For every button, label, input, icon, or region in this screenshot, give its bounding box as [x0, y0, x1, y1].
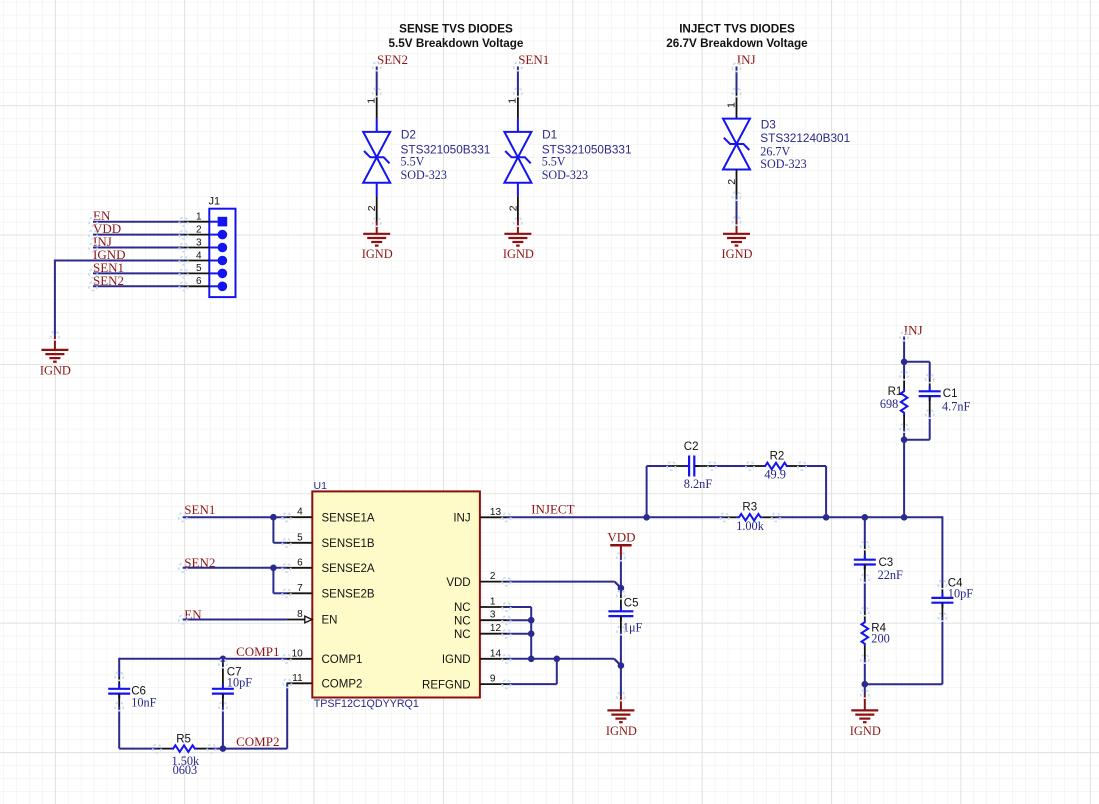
pin 1 of J1 (black pin line): [184, 221, 210, 223]
svg-text:U1: U1: [314, 480, 328, 492]
capacitor C5 symbol: [620, 607, 622, 612]
junction node NC pin 12: [528, 630, 535, 637]
svg-text:22nF: 22nF: [878, 568, 903, 582]
svg-text:IGND: IGND: [503, 247, 534, 261]
capacitor C3 symbol: [864, 555, 866, 560]
pin 2 of D2 (black pin line): [376, 196, 378, 222]
svg-text:4.7nF: 4.7nF: [942, 399, 971, 413]
svg-text:5.5V Breakdown Voltage: 5.5V Breakdown Voltage: [389, 37, 524, 50]
op-amp U1 body (IC TPSF12C1QDYYRQ1): [312, 491, 480, 697]
connector J1 pin 1 square pad: [209, 217, 227, 227]
pin 2 of R5 (black lead): [197, 748, 212, 750]
svg-text:IGND: IGND: [850, 724, 881, 738]
pin 3 of J1 (black pin line): [184, 247, 210, 249]
capacitor C2 symbol: [684, 465, 689, 467]
wire R1 bottom vertical: [903, 428, 905, 440]
pin 2 of C1 (black lead): [929, 396, 931, 414]
pin 1 of C2 (black lead): [671, 465, 688, 467]
wire NC pin 1 to bus: [507, 606, 532, 608]
pin 8 (EN) of U1 left side: [287, 619, 305, 621]
junction node R4 / C4 bottom: [862, 681, 869, 688]
pin 1 of R2 (black lead): [750, 465, 763, 467]
svg-text:SENSE1A: SENSE1A: [322, 512, 375, 524]
pin 2 of C5 (black lead): [620, 616, 622, 630]
wire red stem at D2 ground: [376, 221, 378, 234]
svg-text:COMP1: COMP1: [322, 654, 363, 666]
wire C6 top vertical: [118, 658, 120, 676]
wire red stem at R4/C4 ground: [864, 694, 866, 710]
pin 2 of C3 (black lead): [864, 565, 866, 579]
wire INJECT rail segment 2: [647, 516, 725, 518]
svg-text:5: 5: [297, 532, 303, 543]
svg-text:NC: NC: [454, 615, 471, 627]
svg-text:7: 7: [297, 583, 303, 594]
junction node loop bottom: [901, 436, 908, 443]
svg-text:SENSE1B: SENSE1B: [322, 538, 375, 550]
svg-text:2: 2: [726, 179, 738, 185]
pin 5 of J1 (black pin line): [184, 272, 210, 274]
svg-text:D2: D2: [401, 127, 416, 141]
pin 1 of C4 (black lead): [941, 585, 943, 598]
pin 1 of R4 (black lead): [864, 612, 866, 621]
wire IGND net from pin 14: [507, 658, 615, 660]
pin 9 (REFGND) of U1 right side: [480, 683, 507, 685]
wire SEN1 branch down to pin 5: [272, 517, 274, 543]
wire COMP1 from U1 pin 10: [119, 658, 286, 660]
junction node SEN1: [270, 514, 277, 521]
capacitor C7 symbol: [222, 684, 224, 689]
ground IGND symbol (below D2): [363, 233, 390, 235]
junction node NC bus to IGND wire: [528, 656, 535, 663]
pin 2 of R2 (black lead): [789, 465, 802, 467]
svg-text:9: 9: [490, 674, 496, 685]
wire C1 top vertical: [929, 362, 931, 379]
pin 2 of R4 (black lead): [864, 646, 866, 659]
pin 1 of D1 (black pin line): [517, 92, 519, 118]
wire C3 to R4 vertical: [864, 579, 866, 612]
svg-text:5.5V: 5.5V: [542, 154, 566, 168]
wire net VDD to J1 pin 2: [93, 234, 184, 236]
pin 10 (COMP1) of U1 left side: [287, 658, 313, 660]
pin 1 of D3 (black pin line): [736, 92, 738, 118]
pin 1 of C7 (black lead): [222, 664, 224, 689]
svg-text:SENSE TVS DIODES: SENSE TVS DIODES: [399, 23, 513, 36]
ground IGND symbol (below C5): [607, 709, 634, 711]
svg-text:10nF: 10nF: [131, 695, 156, 709]
pin 1 of D2 (black pin line): [376, 92, 378, 118]
wire loop bottom horizontal: [904, 439, 930, 441]
capacitor C4 symbol: [941, 593, 943, 598]
svg-text:INJ: INJ: [453, 513, 470, 525]
junction node INJECT / C2 branch left: [643, 514, 650, 521]
svg-text:D3: D3: [761, 117, 777, 131]
svg-text:13: 13: [490, 507, 502, 518]
wire bottom horizontal R4 to C4: [865, 683, 943, 685]
wire IGND red stem at J1 ground: [54, 336, 56, 350]
resistor R1 symbol: [901, 389, 908, 415]
svg-text:SOD-323: SOD-323: [401, 168, 447, 182]
svg-text:IGND: IGND: [362, 247, 393, 261]
svg-text:5.5V: 5.5V: [401, 154, 425, 168]
power port VDD stem: [620, 545, 622, 556]
svg-text:1: 1: [366, 98, 378, 104]
pin 1 (NC) of U1 right side: [480, 606, 507, 608]
EN input arrow on pin 8: [305, 616, 312, 623]
wire REFGND from pin 9: [507, 683, 557, 685]
ground IGND symbol (below D3): [723, 233, 750, 235]
wire net IGND from J1 pin 4 (horizontal): [55, 260, 184, 262]
wire into U1 pin 5: [273, 542, 286, 544]
wire R4 bottom vertical: [864, 659, 866, 684]
wire net INJ to J1 pin 3: [93, 247, 184, 249]
wire SEN1 to U1 pin 4: [183, 516, 287, 518]
wire upper branch right segment: [802, 465, 826, 467]
svg-text:R3: R3: [742, 502, 757, 514]
svg-text:14: 14: [490, 648, 502, 659]
pin 5 (SENSE1B) of U1 left side: [287, 542, 313, 544]
wire C6 bottom vertical: [118, 707, 120, 749]
pin 2 of D1 (black pin line): [517, 196, 519, 222]
svg-text:R2: R2: [770, 450, 785, 462]
svg-text:0603: 0603: [173, 763, 198, 777]
svg-text:SEN1: SEN1: [184, 502, 215, 517]
svg-text:REFGND: REFGND: [422, 679, 471, 691]
ground IGND symbol (below D1): [504, 233, 531, 235]
svg-text:1: 1: [725, 102, 737, 108]
svg-text:8.2nF: 8.2nF: [684, 477, 713, 491]
wire VDD vertical to junction: [620, 557, 622, 595]
svg-text:10: 10: [292, 648, 304, 659]
wire SEN2 to D2 pin 1: [376, 67, 378, 93]
wire red stem at C5 ground: [620, 696, 622, 710]
pin 2 of J1 (black pin line): [184, 234, 210, 236]
pin 2 of C7 (black lead): [222, 694, 224, 707]
wire C1 bottom vertical: [929, 414, 931, 440]
svg-text:49.9: 49.9: [764, 467, 786, 481]
wire R1 top vertical: [903, 362, 905, 376]
wire INJ to D3 pin 1: [736, 67, 738, 93]
svg-text:1.00k: 1.00k: [736, 519, 765, 533]
pin 2 (VDD) of U1 right side: [480, 581, 507, 583]
wire C7 bottom vertical: [222, 707, 224, 749]
wire net SEN2 to J1 pin 6: [93, 285, 184, 287]
pin 4 of J1 (black pin line): [184, 260, 210, 262]
pin 6 (SENSE2A) of U1 left side: [287, 567, 313, 569]
svg-text:8: 8: [297, 609, 303, 620]
wire loop top horizontal: [904, 361, 930, 363]
svg-text:2: 2: [490, 571, 496, 582]
pin 1 of C5 (black lead): [620, 595, 622, 612]
ground IGND symbol (below R4): [851, 709, 878, 711]
resistor R3 symbol: [737, 514, 763, 521]
wire INJECT rail segment 1: [507, 516, 647, 518]
wire R2 branch right riser: [825, 466, 827, 517]
junction node R1/C1 column: [901, 514, 908, 521]
pin 1 of R5 (black lead): [157, 748, 171, 750]
wire VDD diagonal jog: [615, 582, 621, 588]
wire SEN1 to D1 pin 1: [517, 67, 519, 93]
svg-text:SENSE2B: SENSE2B: [322, 589, 375, 601]
power port VDD bar: [610, 544, 631, 547]
svg-text:SENSE2A: SENSE2A: [322, 563, 375, 575]
resistor R5 symbol: [171, 745, 197, 752]
pin 2 of C2 (black lead): [695, 465, 712, 467]
svg-text:C5: C5: [624, 598, 639, 610]
wire EN to U1 pin 8: [183, 619, 287, 621]
svg-text:698: 698: [880, 397, 898, 411]
svg-text:COMP2: COMP2: [236, 734, 279, 749]
junction node NC pin 3: [528, 617, 535, 624]
svg-text:3: 3: [490, 610, 496, 621]
svg-text:NC: NC: [454, 602, 471, 614]
pin 1 of C3 (black lead): [864, 546, 866, 560]
svg-text:D1: D1: [542, 127, 557, 141]
svg-text:10pF: 10pF: [948, 586, 973, 600]
resistor R4 symbol: [862, 620, 869, 646]
wire IGND diagonal jog to C5 column: [614, 659, 621, 666]
capacitor C1 symbol: [929, 387, 931, 392]
svg-text:R5: R5: [176, 734, 191, 746]
pin 6 of J1 (black pin line): [184, 285, 210, 287]
pin 2 of R1 (black lead): [903, 415, 905, 428]
svg-text:SOD-323: SOD-323: [542, 168, 588, 182]
wire COMP2 rail right segment: [212, 748, 288, 750]
wire below R4/C4 junction: [864, 684, 866, 694]
junction node C5 bottom / IGND: [618, 662, 625, 669]
wire R1/C1 column down to rail: [903, 440, 905, 518]
svg-text:INJECT TVS DIODES: INJECT TVS DIODES: [679, 23, 795, 36]
pin 7 (SENSE2B) of U1 left side: [287, 592, 313, 594]
ground IGND symbol (below J1): [41, 349, 68, 351]
svg-text:C1: C1: [943, 388, 958, 400]
wire rail segment 3: [776, 516, 943, 518]
wire red stem at D3 ground: [736, 221, 738, 234]
svg-text:200: 200: [871, 632, 889, 646]
wire red stem at D1 ground: [517, 221, 519, 234]
diode D1 bottom lead: [517, 183, 519, 196]
pin 13 (INJ) of U1 right side: [480, 516, 507, 518]
wire into U1 pin 7: [273, 592, 286, 594]
connector J1 pin 2 round pad: [209, 230, 227, 240]
connector J1 pin 5 round pad: [209, 269, 227, 279]
svg-text:12: 12: [490, 623, 502, 634]
diode D2 top lead: [376, 119, 378, 133]
svg-text:VDD: VDD: [446, 577, 470, 589]
diode D1 symbol: [504, 132, 531, 183]
svg-text:2: 2: [507, 205, 519, 211]
wire COMP2 rail left segment: [119, 748, 157, 750]
wire C7 top vertical: [222, 659, 224, 664]
wire net EN to J1 pin 1: [93, 221, 184, 223]
junction node COMP1 / C7: [220, 656, 227, 663]
pin 12 (NC) of U1 right side: [480, 633, 507, 635]
connection markers (pale blue indicators): [51, 62, 947, 753]
wire NC pin 12 to bus: [507, 633, 532, 635]
pin 2 of C6 (black lead): [118, 694, 120, 707]
junction node loop top: [901, 359, 908, 366]
svg-text:IGND: IGND: [40, 363, 71, 377]
wire REFGND riser: [556, 659, 558, 684]
svg-text:1μF: 1μF: [623, 621, 643, 635]
junction node R2 branch right: [823, 514, 830, 521]
svg-text:IGND: IGND: [722, 247, 753, 261]
wire net IGND vertical drop: [54, 260, 56, 336]
svg-text:INJ: INJ: [904, 322, 923, 337]
wire C5 bottom vertical: [620, 631, 622, 697]
svg-text:11: 11: [292, 673, 303, 684]
junction node COMP2: [220, 745, 227, 752]
wire SEN2 to U1 pin 6: [183, 567, 287, 569]
pin 1 of R1 (black lead): [903, 376, 905, 390]
svg-text:SOD-323: SOD-323: [760, 157, 806, 171]
svg-text:COMP2: COMP2: [322, 679, 363, 691]
wire COMP2 riser to pin 11: [286, 683, 288, 748]
pin 11 (COMP2) of U1 left side: [287, 682, 313, 684]
svg-text:IGND: IGND: [442, 654, 471, 666]
junction node VDD / C5: [618, 585, 625, 592]
svg-text:C2: C2: [684, 441, 699, 453]
pin 1 of C6 (black lead): [118, 676, 120, 689]
svg-text:IGND: IGND: [606, 724, 637, 738]
connector J1 pin 4 round pad: [209, 256, 227, 266]
wire VDD net from U1 pin 2: [507, 581, 615, 583]
wire C3 top vertical: [864, 517, 866, 545]
pin 2 of R3 (black lead): [763, 516, 776, 518]
svg-text:TPSF12C1QDYYRQ1: TPSF12C1QDYYRQ1: [314, 698, 419, 710]
svg-text:COMP1: COMP1: [236, 644, 279, 659]
junction node C3 branch: [862, 514, 869, 521]
pin 4 (SENSE1A) of U1 left side: [287, 516, 313, 518]
svg-text:J1: J1: [209, 196, 220, 208]
diode D2 symbol: [363, 132, 390, 183]
wire upper branch left segment: [647, 465, 672, 467]
diode D3 symbol: [723, 119, 750, 170]
wire SEN2 branch down to pin 7: [272, 568, 274, 594]
svg-text:VDD: VDD: [607, 529, 635, 544]
wire C4 top vertical from rail corner: [941, 516, 943, 584]
diode D2 bottom lead: [376, 183, 378, 196]
pin 2 of D3 (black pin line): [736, 170, 738, 196]
wire net SEN1 to J1 pin 5: [93, 272, 184, 274]
connector J1 pin 6 round pad: [209, 282, 227, 292]
junction node REFGND join: [554, 656, 561, 663]
capacitor C6 symbol: [118, 684, 120, 689]
svg-text:4: 4: [297, 507, 303, 518]
svg-text:2: 2: [366, 205, 378, 211]
pin 2 of C4 (black lead): [941, 603, 943, 617]
svg-text:EN: EN: [322, 615, 338, 627]
junction node SEN2: [270, 565, 277, 572]
connector J1 body: [209, 209, 235, 297]
pin 1 of R3 (black lead): [725, 516, 737, 518]
svg-text:6: 6: [297, 557, 303, 568]
diode D1 top lead: [517, 119, 519, 133]
svg-text:1: 1: [490, 597, 496, 608]
svg-text:STS321240B301: STS321240B301: [760, 131, 850, 145]
connector J1 pin 3 round pad: [209, 243, 227, 253]
svg-text:1: 1: [507, 98, 519, 104]
wire C2 branch left riser: [646, 466, 648, 517]
svg-text:10pF: 10pF: [227, 676, 252, 690]
svg-text:SEN1: SEN1: [518, 52, 549, 67]
svg-text:INJECT: INJECT: [531, 502, 574, 517]
wire NC pin 3 to bus: [507, 619, 532, 621]
pin 3 (NC) of U1 right side: [480, 619, 507, 621]
wire D3 pin 2 to ground: [736, 196, 738, 221]
resistor R2 symbol: [763, 463, 789, 470]
svg-text:26.7V Breakdown Voltage: 26.7V Breakdown Voltage: [666, 37, 808, 50]
svg-text:SEN2: SEN2: [377, 52, 408, 67]
pin 14 (IGND) of U1 right side: [480, 658, 507, 660]
wire upper branch middle segment: [712, 465, 750, 467]
wire NC bus vertical: [530, 607, 532, 659]
svg-text:NC: NC: [454, 629, 471, 641]
wire INJ down to loop: [903, 337, 905, 362]
pin 1 of C1 (black lead): [929, 379, 931, 392]
wire C4 bottom vertical: [941, 617, 943, 684]
